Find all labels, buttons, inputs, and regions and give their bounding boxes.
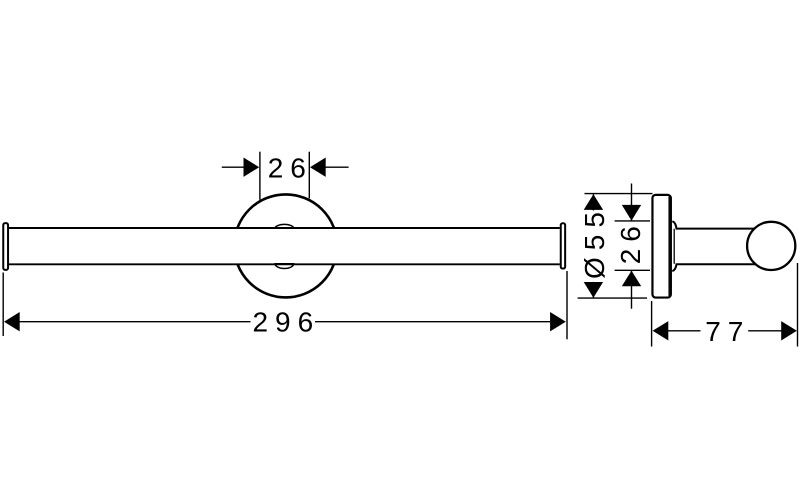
dim 26 side: line bottom segment <box>631 270 633 308</box>
dim 26 front: extension line left <box>259 152 261 200</box>
svg-text:26: 26 <box>615 219 646 264</box>
dim 26 front: left leader <box>222 166 244 168</box>
dim 26 side: line top segment <box>631 184 633 221</box>
dim O55: top arrow <box>584 194 603 210</box>
svg-text:296: 296 <box>252 307 320 338</box>
rod top edge with fillet <box>672 221 757 228</box>
dim 26 side: bottom arrow <box>622 271 641 287</box>
dim 296: left arrow <box>4 312 20 331</box>
dim 77: line right segment <box>748 330 781 332</box>
dim 26 side: extension bottom <box>615 269 650 271</box>
dim 26 side: extension top <box>615 220 650 222</box>
bar bottom edge <box>9 263 560 265</box>
rod bottom edge with fillet <box>672 264 757 271</box>
dim O55: extension bottom <box>578 297 647 299</box>
dim 296: line left segment <box>20 321 251 323</box>
dim 296: extension line left <box>2 273 4 337</box>
dim O55: line bottom segment <box>592 282 594 298</box>
ball end <box>747 222 795 270</box>
bar body (front view, covers circle) <box>9 229 560 264</box>
svg-text:Ø55: Ø55 <box>579 205 610 279</box>
side view wall plate <box>652 195 670 298</box>
dim 77: extension left <box>651 301 653 347</box>
wall plate circle (front view) <box>234 194 337 297</box>
dim 296: right arrow <box>550 312 566 331</box>
left end cap <box>3 223 8 270</box>
dim 296: extension line right <box>566 271 568 339</box>
bar top edge <box>9 227 560 229</box>
rod base edge at plate face <box>673 229 675 264</box>
dim 26 front: right arrow <box>310 158 326 177</box>
dim 26 front: extension line right <box>308 152 310 199</box>
svg-text:26: 26 <box>268 153 313 184</box>
dim O55: extension top <box>585 193 653 195</box>
dim 77: extension right <box>797 263 799 347</box>
dim 26 side: top arrow <box>622 205 641 221</box>
dim 26 front: right leader <box>325 166 348 168</box>
right end cap <box>561 223 565 268</box>
hub dome lower <box>275 264 294 269</box>
dim 77: line left segment <box>668 330 701 332</box>
dim O55: line top segment <box>592 194 594 210</box>
dim 77: left arrow <box>653 321 669 340</box>
dim 296: line right segment <box>315 321 550 323</box>
hub dome upper <box>275 224 294 228</box>
dim 26 front: left arrow <box>244 158 260 177</box>
side view plate inner edge <box>668 197 670 297</box>
svg-text:77: 77 <box>705 316 750 347</box>
dim O55: bottom arrow <box>584 282 603 298</box>
dim 77: right arrow <box>781 321 797 340</box>
